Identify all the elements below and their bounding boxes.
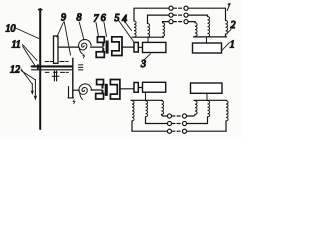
svg-text:12: 12 bbox=[10, 65, 20, 76]
svg-text:8: 8 bbox=[77, 13, 82, 24]
svg-text:3: 3 bbox=[140, 59, 146, 70]
svg-text:11: 11 bbox=[12, 40, 21, 51]
svg-text:5: 5 bbox=[115, 13, 120, 24]
svg-text:2: 2 bbox=[231, 20, 236, 31]
svg-text:1: 1 bbox=[230, 40, 235, 51]
svg-text:7: 7 bbox=[94, 14, 100, 25]
svg-text:10: 10 bbox=[6, 24, 16, 35]
svg-text:4: 4 bbox=[122, 14, 127, 25]
svg-text:9: 9 bbox=[61, 13, 66, 24]
svg-text:6: 6 bbox=[101, 13, 106, 24]
